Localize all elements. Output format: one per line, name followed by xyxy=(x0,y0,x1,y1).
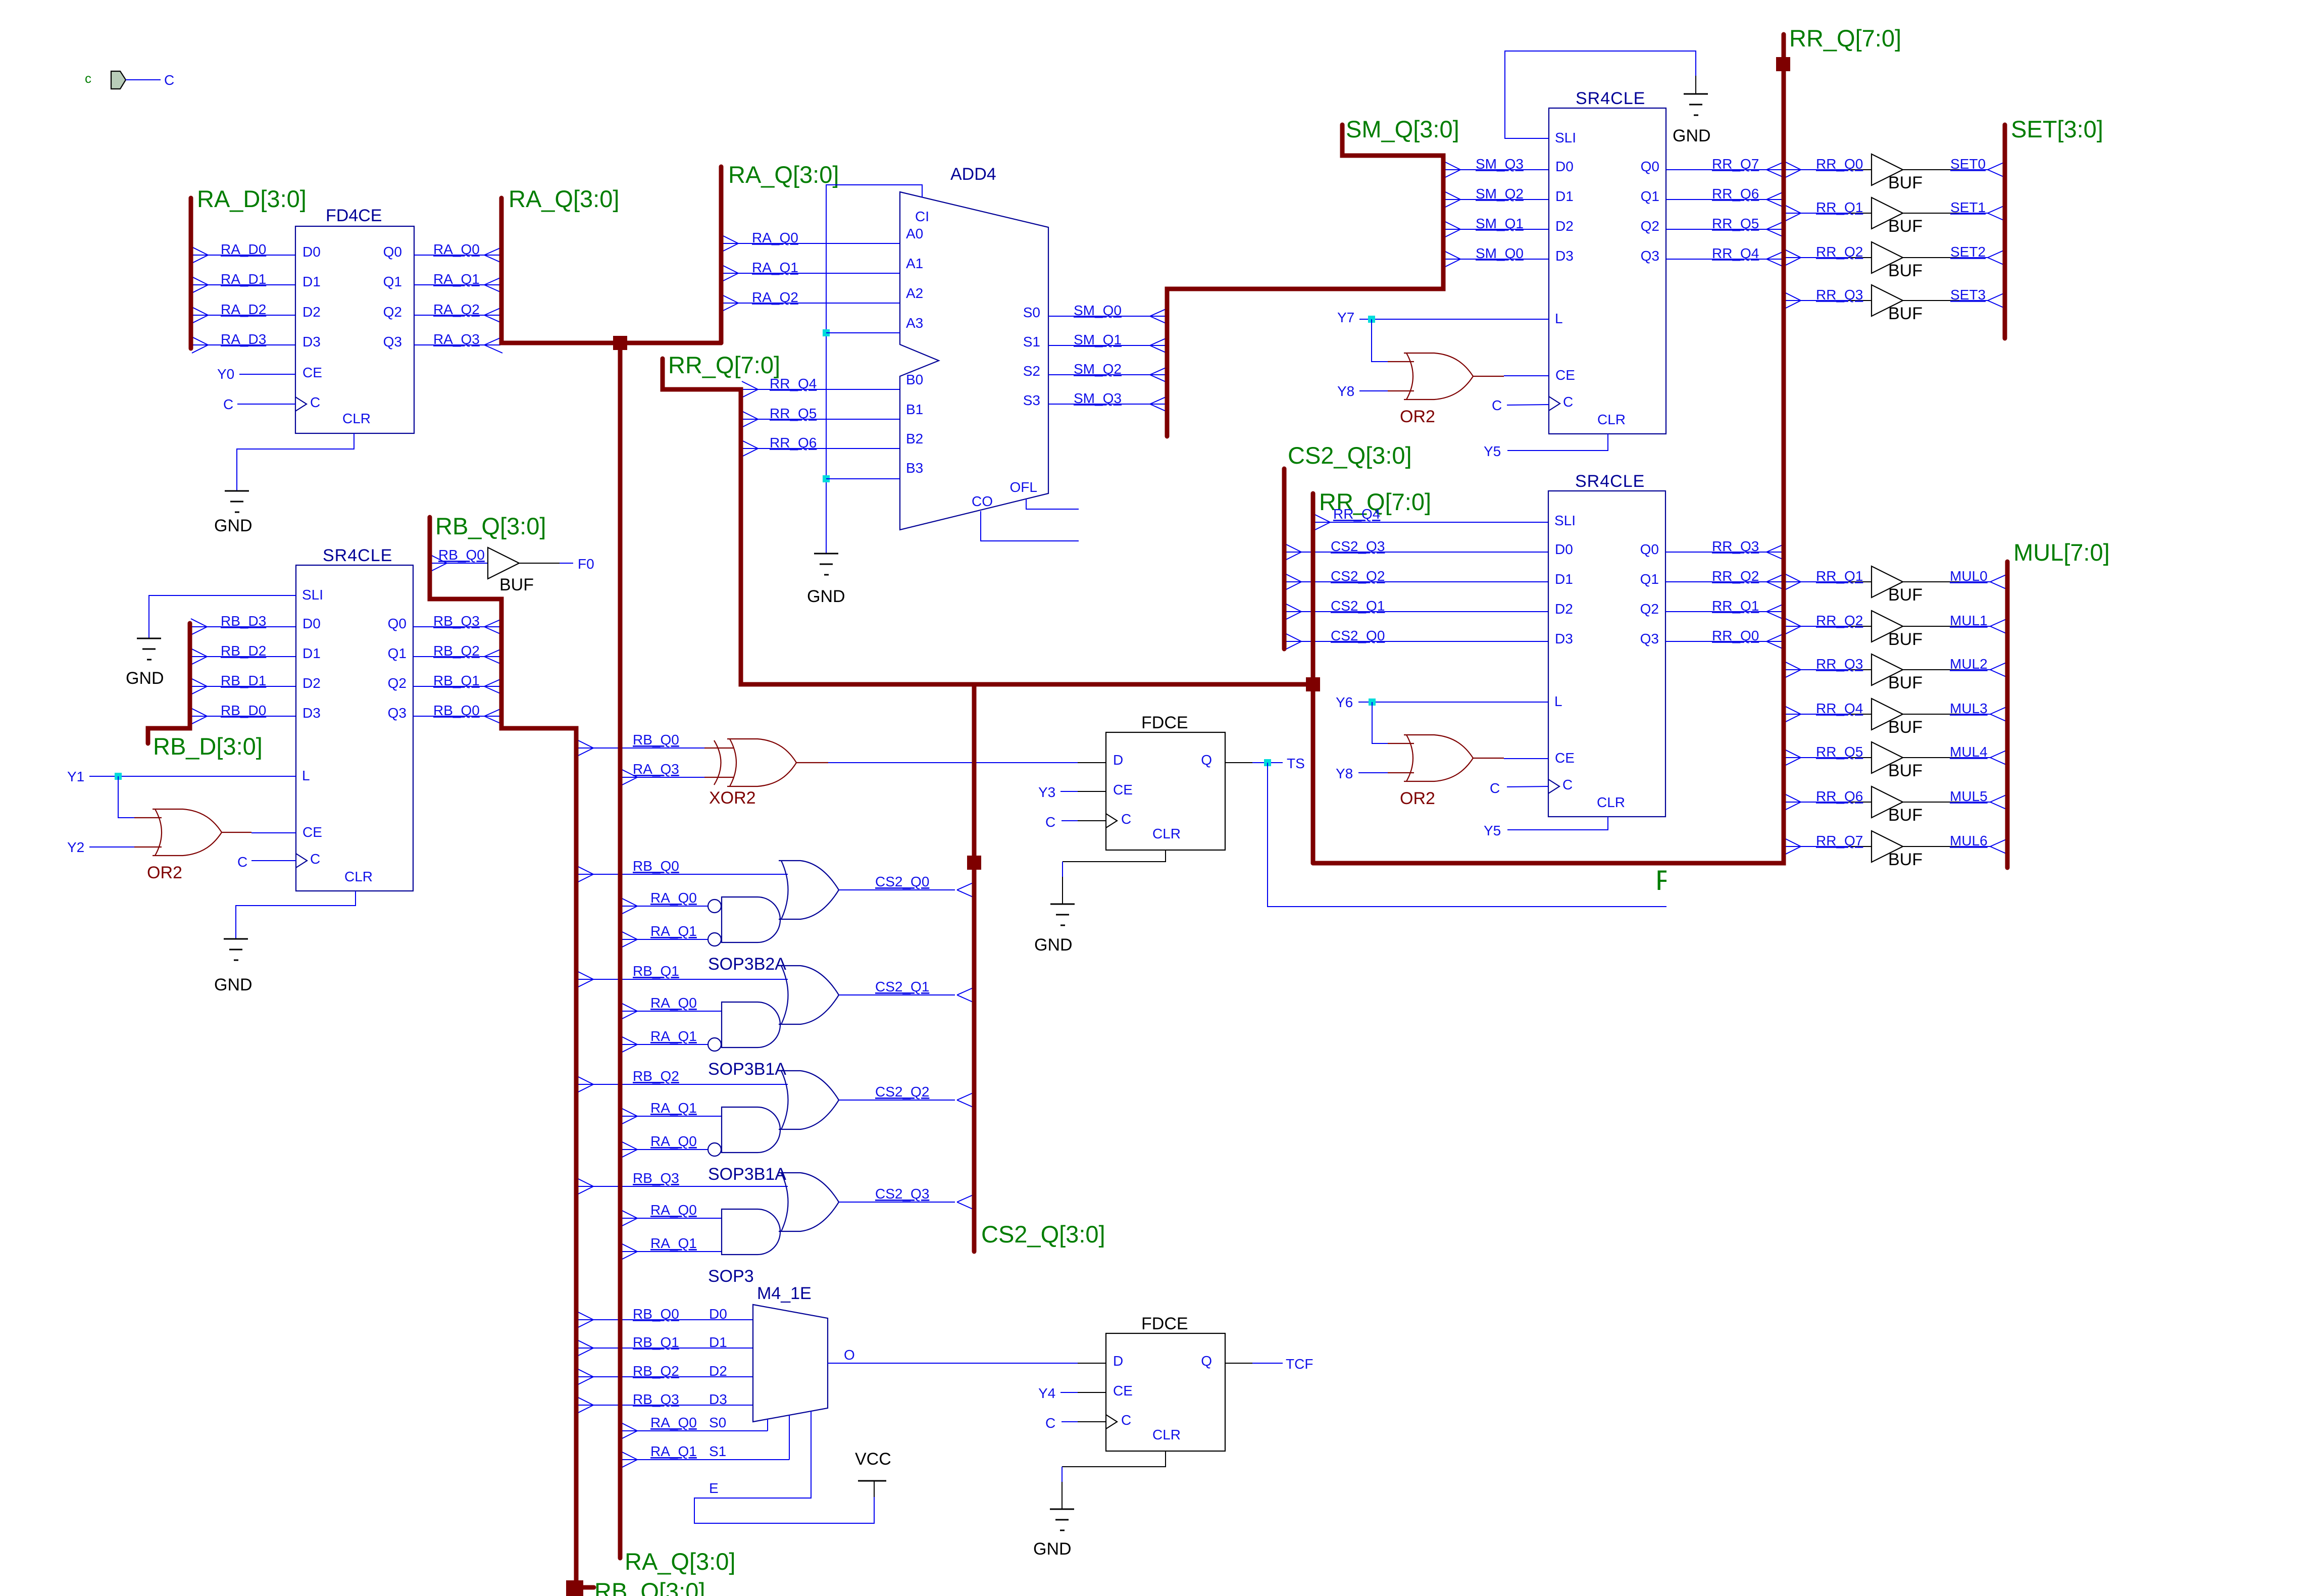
bus tap CS2_Q0 xyxy=(957,882,975,890)
bus tap SET2 xyxy=(1988,250,2006,258)
wire CS2_Q1 to D2 xyxy=(1286,611,1548,612)
wire RR_Q1 to BUF xyxy=(1786,581,1848,582)
svg-text:SM_Q[3:0]: SM_Q[3:0] xyxy=(1346,116,1459,142)
svg-text:RA_D2: RA_D2 xyxy=(221,302,266,317)
or gate OR2 bottom-right xyxy=(1406,735,1413,781)
svg-text:SLI: SLI xyxy=(1554,513,1576,528)
shift register SR4CLE left xyxy=(296,565,413,891)
wire XOR2 output to FDCE D xyxy=(796,762,828,763)
wire SM_Q1 to D2 xyxy=(1445,229,1549,230)
bus tap SM_Q1 xyxy=(1444,221,1460,229)
wire RB_Q0 to D0 xyxy=(578,1319,753,1320)
svg-text:Q1: Q1 xyxy=(383,274,402,289)
svg-text:RB_D1: RB_D1 xyxy=(221,673,266,688)
svg-text:RB_Q3: RB_Q3 xyxy=(633,1170,679,1186)
svg-text:C: C xyxy=(1045,1415,1055,1431)
svg-text:CE: CE xyxy=(302,824,322,840)
svg-text:D: D xyxy=(1113,1353,1123,1369)
shift register SR4CLE bottom-right xyxy=(1548,491,1665,817)
wire RR_Q4 from Q3 xyxy=(1666,259,1783,260)
bus tap MUL0 xyxy=(1990,574,2008,582)
svg-text:RR_Q7: RR_Q7 xyxy=(1712,156,1759,172)
svg-text:CS2_Q[3:0]: CS2_Q[3:0] xyxy=(981,1221,1105,1248)
wire CLR to GND xyxy=(236,891,356,939)
buffer BUF MUL2 xyxy=(1872,654,1903,685)
svg-text:S0: S0 xyxy=(709,1415,726,1430)
svg-text:D1: D1 xyxy=(302,274,321,289)
svg-text:S0: S0 xyxy=(1023,305,1040,320)
flip-flop FD4CE xyxy=(295,226,414,433)
or gate OR2 top-right xyxy=(1406,353,1413,400)
svg-text:Y8: Y8 xyxy=(1336,766,1353,781)
junction B3 xyxy=(823,475,830,482)
and gate of SOP3 xyxy=(722,1209,780,1255)
svg-text:GND: GND xyxy=(214,975,252,994)
junction Y7 xyxy=(1368,316,1375,323)
svg-text:RA_Q0: RA_Q0 xyxy=(650,1133,697,1149)
svg-text:L: L xyxy=(302,768,310,783)
svg-text:C: C xyxy=(1121,811,1131,827)
svg-text:S3: S3 xyxy=(1023,392,1040,408)
svg-text:RR_Q1: RR_Q1 xyxy=(1712,598,1759,614)
svg-text:RR_Q0: RR_Q0 xyxy=(1712,628,1759,643)
wire SET3 xyxy=(1903,300,1959,301)
svg-text:S1: S1 xyxy=(1023,334,1040,350)
wire RR_Q2 from Q1 xyxy=(1665,581,1783,582)
flip-flop FDCE TS xyxy=(1106,732,1225,850)
bus tap RR_Q4 xyxy=(742,381,758,389)
or gate of SOP3B2A xyxy=(781,861,788,919)
wire RA_D1 xyxy=(193,284,295,285)
svg-text:MUL1: MUL1 xyxy=(1950,613,1988,628)
svg-text:D1: D1 xyxy=(709,1334,727,1350)
bus tap RR_Q5 xyxy=(1766,221,1785,229)
ground GND under FD4CE xyxy=(225,490,249,492)
svg-text:SET2: SET2 xyxy=(1950,244,1986,260)
bus tap RR_Q2 xyxy=(1766,574,1785,582)
svg-text:D0: D0 xyxy=(709,1306,727,1322)
svg-text:CLR: CLR xyxy=(1152,826,1181,841)
bus tap RR_Q7 out xyxy=(1785,838,1801,846)
svg-text:BUF: BUF xyxy=(1888,173,1923,192)
wire RB_D0 xyxy=(192,716,296,717)
wire SLI to GND xyxy=(149,595,296,638)
svg-text:RB_Q[3:0]: RB_Q[3:0] xyxy=(594,1578,705,1596)
svg-text:RA_Q2: RA_Q2 xyxy=(752,289,798,305)
bus tap RR_Q4 out xyxy=(1785,706,1801,714)
wire RR_Q6 to B2 xyxy=(743,448,900,449)
wire RA_Q0 to S0 xyxy=(622,1430,768,1431)
svg-text:Q2: Q2 xyxy=(383,304,402,320)
wire RB_Q2 to D2 xyxy=(578,1376,753,1377)
svg-text:RB_D3: RB_D3 xyxy=(221,613,266,629)
wire OFL xyxy=(1026,499,1079,509)
junction Y6 xyxy=(1369,699,1376,706)
svg-text:Q1: Q1 xyxy=(1640,571,1659,587)
svg-text:RB_Q1: RB_Q1 xyxy=(633,963,679,979)
svg-text:RR_Q5: RR_Q5 xyxy=(1816,744,1863,760)
bus tap SM_Q0 xyxy=(1150,308,1168,316)
svg-text:Y2: Y2 xyxy=(67,839,84,855)
svg-text:RB_Q1: RB_Q1 xyxy=(633,1334,679,1350)
ground GND under FDCE TS xyxy=(1050,904,1075,905)
svg-text:RA_D3: RA_D3 xyxy=(221,331,266,347)
wire RA_Q1 xyxy=(622,939,708,940)
svg-text:D3: D3 xyxy=(302,334,321,350)
svg-text:C: C xyxy=(1490,780,1500,796)
bus tap RR_Q4 xyxy=(1766,251,1785,259)
junction TS xyxy=(1264,759,1271,766)
wire RR_Q7 to BUF xyxy=(1786,846,1848,847)
svg-text:SR4CLE: SR4CLE xyxy=(1576,89,1645,108)
svg-text:C: C xyxy=(223,396,233,412)
svg-text:FDCE: FDCE xyxy=(1141,1314,1188,1333)
bus tap RA_Q3 to XOR2 xyxy=(621,769,637,777)
svg-text:CLR: CLR xyxy=(1597,412,1626,427)
wire RB_Q0 to SOP3B2A xyxy=(578,874,788,875)
bus tap RA_Q1 to SOP3 xyxy=(621,1243,637,1252)
buffer BUF MUL1 xyxy=(1872,611,1903,642)
svg-text:MUL5: MUL5 xyxy=(1950,788,1988,804)
bus tap RB_Q1 xyxy=(484,678,502,686)
svg-text:Y6: Y6 xyxy=(1336,694,1353,710)
svg-text:SOP3: SOP3 xyxy=(708,1267,754,1286)
svg-text:RR_Q6: RR_Q6 xyxy=(1712,186,1759,202)
and gate of SOP3B1A xyxy=(722,1107,780,1153)
svg-text:Y3: Y3 xyxy=(1038,784,1055,800)
svg-text:RB_Q0: RB_Q0 xyxy=(633,858,679,874)
svg-text:Q0: Q0 xyxy=(1641,159,1659,174)
svg-text:BUF: BUF xyxy=(499,575,534,594)
svg-text:MUL0: MUL0 xyxy=(1950,568,1988,584)
svg-text:RR_Q6: RR_Q6 xyxy=(1816,788,1863,804)
svg-text:BUF: BUF xyxy=(1888,673,1923,692)
bus tap MUL4 xyxy=(1990,750,2008,758)
bus tap RR_Q6 out xyxy=(1785,794,1801,802)
wire RB_Q1 to D1 xyxy=(578,1348,753,1349)
white overlay box xyxy=(1666,868,1790,913)
svg-text:c: c xyxy=(85,71,91,86)
bus tap RA_Q1 to S1 xyxy=(621,1452,637,1460)
wire CLR to Y5 xyxy=(1507,434,1608,451)
adder ADD4 xyxy=(900,192,1048,530)
svg-text:RA_D0: RA_D0 xyxy=(221,241,266,257)
svg-text:BUF: BUF xyxy=(1888,261,1923,280)
wire MUL1 xyxy=(1903,626,1959,627)
wire RB_Q3 xyxy=(413,626,500,627)
wire RA_Q0 xyxy=(622,1149,708,1150)
wire CI to GND net xyxy=(826,185,922,554)
svg-text:D0: D0 xyxy=(1555,159,1574,174)
bus tap RA_Q3 xyxy=(484,337,502,345)
wire RA_Q2 xyxy=(414,315,500,316)
svg-text:RR_Q5: RR_Q5 xyxy=(1712,216,1759,231)
bus tap MUL6 xyxy=(1990,838,2008,846)
bus tap RB_D1 xyxy=(191,678,207,686)
svg-text:RA_D[3:0]: RA_D[3:0] xyxy=(197,185,307,212)
svg-text:MUL3: MUL3 xyxy=(1950,701,1988,716)
svg-text:RA_D1: RA_D1 xyxy=(221,271,266,287)
wire Y2 to OR2 input xyxy=(89,846,134,847)
svg-text:RA_Q1: RA_Q1 xyxy=(650,923,697,939)
wire C to clock xyxy=(1507,786,1548,787)
wire CS2_Q3 xyxy=(839,1202,955,1203)
svg-text:SR4CLE: SR4CLE xyxy=(1575,472,1645,491)
bus tick RB_Q bottom label xyxy=(581,1585,594,1590)
power VCC xyxy=(874,1481,875,1497)
svg-text:C: C xyxy=(1121,1412,1131,1428)
svg-text:RB_Q2: RB_Q2 xyxy=(433,643,480,659)
svg-text:VCC: VCC xyxy=(855,1450,891,1469)
svg-text:D3: D3 xyxy=(302,705,321,721)
bus junction RR_Q middle xyxy=(1306,677,1320,691)
svg-text:CLR: CLR xyxy=(1597,794,1625,810)
svg-text:Q: Q xyxy=(1201,1353,1212,1369)
bus tap SM_Q3 xyxy=(1150,396,1168,404)
bus RR_Q[7:0] middle xyxy=(1311,493,1316,863)
wire RR_Q5 to BUF xyxy=(1786,757,1848,758)
bus tap RA_Q2 xyxy=(484,307,502,315)
bus tap CS2_Q2 xyxy=(1285,574,1301,582)
bus tap SM_Q2 xyxy=(1444,191,1460,199)
wire Y6 to OR2 input xyxy=(1372,702,1388,743)
wire SM_Q1 xyxy=(1048,345,1166,346)
svg-text:Y8: Y8 xyxy=(1337,383,1354,399)
wire OR2 output to CE xyxy=(1473,376,1504,377)
junction A3 xyxy=(823,329,830,336)
svg-text:RR_Q2: RR_Q2 xyxy=(1816,613,1863,628)
wire CLR to Y5 xyxy=(1507,817,1608,830)
svg-text:S2: S2 xyxy=(1023,363,1040,379)
svg-text:Q: Q xyxy=(1201,752,1212,768)
svg-text:C: C xyxy=(310,394,320,410)
svg-text:SM_Q0: SM_Q0 xyxy=(1074,303,1122,318)
svg-text:SM_Q1: SM_Q1 xyxy=(1476,216,1524,231)
svg-text:RB_Q0: RB_Q0 xyxy=(633,1306,679,1322)
svg-text:TCF: TCF xyxy=(1286,1356,1313,1372)
svg-text:OR2: OR2 xyxy=(147,863,182,882)
wire RB_D1 xyxy=(192,686,296,687)
svg-text:SLI: SLI xyxy=(1555,130,1576,145)
svg-text:CS2_Q2: CS2_Q2 xyxy=(1331,568,1385,584)
wire RR_Q3 to BUF xyxy=(1786,669,1848,670)
wire RA_D3 xyxy=(193,344,295,345)
svg-text:CS2_Q2: CS2_Q2 xyxy=(875,1084,929,1100)
svg-text:RB_Q1: RB_Q1 xyxy=(433,673,480,688)
wire CS2_Q3 to D0 xyxy=(1286,552,1548,553)
svg-text:CS2_Q1: CS2_Q1 xyxy=(875,979,929,994)
svg-text:RB_D0: RB_D0 xyxy=(221,703,266,718)
svg-text:RB_Q3: RB_Q3 xyxy=(633,1391,679,1407)
svg-text:Q3: Q3 xyxy=(1641,248,1659,264)
svg-text:SET1: SET1 xyxy=(1950,199,1986,215)
wire RR_Q0 from Q3 xyxy=(1665,641,1783,642)
svg-text:FDCE: FDCE xyxy=(1141,713,1188,732)
buffer BUF MUL5 xyxy=(1872,786,1903,818)
bus end RB_Q bottom xyxy=(566,1580,583,1596)
svg-text:RR_Q2: RR_Q2 xyxy=(1816,244,1863,260)
bus tap MUL2 xyxy=(1990,662,2008,670)
wire MUL0 xyxy=(1903,581,1959,582)
wire C to clock xyxy=(1507,405,1549,405)
bus RR_Q[7:0] at ADD4 xyxy=(663,359,1313,684)
svg-text:Q2: Q2 xyxy=(1641,218,1659,234)
wire RA_Q1 xyxy=(414,284,500,285)
bus tap RA_D2 xyxy=(192,307,208,315)
wire RA_D2 xyxy=(193,315,295,316)
svg-text:A2: A2 xyxy=(906,285,923,301)
svg-text:RR_Q4: RR_Q4 xyxy=(1712,245,1759,261)
xor gate XOR2 xyxy=(730,739,736,786)
svg-text:Q0: Q0 xyxy=(388,616,407,631)
bus tap RB_Q1 to SOP3B1A xyxy=(577,971,593,979)
buffer BUF SET3 xyxy=(1872,285,1903,316)
svg-text:RB_Q0: RB_Q0 xyxy=(438,547,485,563)
svg-text:BUF: BUF xyxy=(1888,304,1923,323)
bus tap RA_Q0 to SOP3 xyxy=(621,1210,637,1218)
svg-text:D0: D0 xyxy=(302,616,321,631)
buffer BUF MUL4 xyxy=(1872,742,1903,773)
svg-text:RA_Q0: RA_Q0 xyxy=(752,230,798,245)
svg-text:RB_Q[3:0]: RB_Q[3:0] xyxy=(435,513,546,539)
svg-text:D1: D1 xyxy=(302,645,321,661)
svg-text:CS2_Q0: CS2_Q0 xyxy=(875,874,929,889)
wire E to VCC xyxy=(694,1411,874,1523)
wire RB_D3 xyxy=(192,626,296,627)
svg-text:RR_Q[7:0]: RR_Q[7:0] xyxy=(1789,25,1901,52)
wire RR_Q0 to BUF xyxy=(1786,169,1848,170)
svg-text:GND: GND xyxy=(214,516,252,535)
svg-text:C: C xyxy=(1492,397,1502,413)
input port c xyxy=(111,71,126,89)
wire RB_D2 xyxy=(192,656,296,657)
ground GND under FDCE TCF xyxy=(1050,1509,1074,1510)
svg-text:RR_Q3: RR_Q3 xyxy=(1712,538,1759,554)
svg-text:GND: GND xyxy=(1673,126,1711,145)
wire Q to TS xyxy=(1225,762,1252,763)
svg-text:SLI: SLI xyxy=(302,587,323,603)
wire RA_Q1 to A1 xyxy=(723,273,900,274)
svg-text:Y0: Y0 xyxy=(217,366,234,382)
svg-text:CE: CE xyxy=(1555,750,1575,766)
svg-text:D1: D1 xyxy=(1555,188,1574,204)
wire Y7 to L xyxy=(1359,319,1549,320)
svg-text:RA_Q1: RA_Q1 xyxy=(650,1235,697,1251)
bus tap CS2_Q1 xyxy=(1285,604,1301,612)
svg-text:A3: A3 xyxy=(906,315,923,331)
svg-text:Y5: Y5 xyxy=(1484,443,1501,459)
wire SM_Q0 to D3 xyxy=(1445,259,1549,260)
bus tap RA_D3 xyxy=(192,337,208,345)
svg-text:RA_Q1: RA_Q1 xyxy=(433,271,480,287)
svg-text:RA_Q1: RA_Q1 xyxy=(650,1443,697,1459)
svg-text:RA_Q0: RA_Q0 xyxy=(650,890,697,906)
svg-text:GND: GND xyxy=(1033,1539,1072,1559)
svg-text:A1: A1 xyxy=(906,256,923,271)
bus tap MUL3 xyxy=(1990,706,2008,714)
svg-text:SM_Q2: SM_Q2 xyxy=(1074,361,1122,377)
buffer BUF MUL3 xyxy=(1872,699,1903,730)
bus junction CS2_Q xyxy=(967,856,981,870)
ground GND under SR4CLE left xyxy=(224,938,248,940)
svg-text:Q2: Q2 xyxy=(1640,601,1659,617)
wire RB_Q3 to D3 xyxy=(578,1405,753,1406)
svg-text:GND: GND xyxy=(807,587,845,606)
svg-text:L: L xyxy=(1555,311,1563,326)
wire RB_Q2 to SOP3B1A xyxy=(578,1084,788,1085)
svg-text:SOP3B1A: SOP3B1A xyxy=(708,1165,786,1184)
bus tap RR_Q3 out xyxy=(1785,662,1801,670)
wire RA_Q1 xyxy=(622,1251,722,1252)
bus tap RR_Q3 out xyxy=(1785,292,1801,301)
buffer BUF F0 xyxy=(488,547,519,579)
svg-text:C: C xyxy=(1045,814,1055,830)
wire RA_Q0 xyxy=(622,1218,722,1219)
bus tap RB_D3 xyxy=(191,619,207,627)
wire B3 xyxy=(826,478,900,479)
svg-text:B1: B1 xyxy=(906,402,923,417)
bus tap RR_Q0 out xyxy=(1785,162,1801,170)
bus RA_D[3:0] xyxy=(189,198,193,348)
wire MUL4 xyxy=(1903,757,1959,758)
wire Y4 to CE xyxy=(1060,1392,1078,1393)
wire CS2_Q2 xyxy=(839,1100,955,1101)
wire RB_Q2 xyxy=(413,656,500,657)
svg-text:RA_Q0: RA_Q0 xyxy=(433,241,480,257)
svg-text:TS: TS xyxy=(1287,756,1305,771)
wire MUL3 xyxy=(1903,714,1959,715)
wire Y0 to CE xyxy=(239,374,295,375)
wire RB_Q3 to SOP3 xyxy=(578,1186,788,1187)
svg-text:RR_Q4: RR_Q4 xyxy=(1333,506,1380,522)
svg-text:S1: S1 xyxy=(709,1443,726,1459)
bus tap SM_Q1 xyxy=(1150,337,1168,345)
svg-text:D3: D3 xyxy=(1555,248,1574,264)
wire RR_Q5 from Q2 xyxy=(1666,229,1783,230)
wire RR_Q2 to BUF xyxy=(1786,257,1848,258)
bus tap RA_Q0 to S0 xyxy=(621,1423,637,1431)
wire RR_Q4 to BUF xyxy=(1786,714,1848,715)
svg-text:Q2: Q2 xyxy=(388,675,407,691)
bus tap RB_Q0 to BUF xyxy=(431,555,447,563)
svg-text:BUF: BUF xyxy=(1888,585,1923,605)
svg-text:RR_Q4: RR_Q4 xyxy=(770,376,817,391)
svg-text:D2: D2 xyxy=(302,304,321,320)
svg-text:RA_Q2: RA_Q2 xyxy=(433,302,480,317)
bus tap RA_Q1 to SOP3B1A xyxy=(621,1036,637,1044)
bus tap RR_Q4 to SLI xyxy=(1314,514,1330,522)
bus SM_Q[3:0] xyxy=(1167,125,1443,436)
svg-text:BUF: BUF xyxy=(1888,806,1923,825)
bus tap RA_Q1 xyxy=(484,277,502,285)
wire RR_Q7 from Q0 xyxy=(1666,169,1783,170)
wire C to clock xyxy=(1062,820,1078,821)
svg-text:D3: D3 xyxy=(1555,631,1573,646)
wire RB_Q0 to XOR2 xyxy=(578,747,704,749)
svg-text:D2: D2 xyxy=(1555,601,1573,617)
wire RB_Q1 xyxy=(413,686,500,687)
wire RA_Q0 xyxy=(622,1011,722,1012)
svg-text:CS2_Q1: CS2_Q1 xyxy=(1331,598,1385,614)
wire Y1 to L xyxy=(89,776,296,777)
svg-text:OR2: OR2 xyxy=(1400,789,1435,808)
wire RR_Q2 to BUF xyxy=(1786,626,1848,627)
svg-text:RB_Q2: RB_Q2 xyxy=(633,1363,679,1379)
svg-text:RR_Q3: RR_Q3 xyxy=(1816,656,1863,672)
bus tap RR_Q0 xyxy=(1766,633,1785,641)
svg-text:GND: GND xyxy=(1034,935,1073,955)
bus tap SM_Q2 xyxy=(1150,367,1168,375)
